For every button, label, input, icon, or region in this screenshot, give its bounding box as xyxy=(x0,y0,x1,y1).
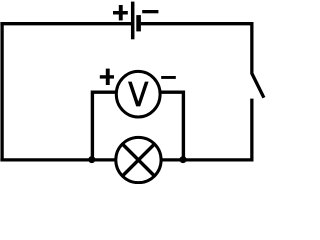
switch S1 (open blade) xyxy=(252,73,264,98)
wire voltmeter left branch (junction up and right to voltmeter) xyxy=(92,92,116,160)
label - (battery negative) xyxy=(142,10,158,13)
wire top-right segment (battery negative plate to right corner) xyxy=(141,22,254,25)
wire right lower segment (switch bottom contact to bottom corner) xyxy=(250,99,253,162)
battery B1 positive plate xyxy=(131,2,135,40)
label - (voltmeter negative terminal) xyxy=(161,76,176,79)
label + (voltmeter positive terminal) xyxy=(100,69,114,85)
voltmeter V1 letter V xyxy=(128,82,149,107)
wire bottom-left segment (bottom-left corner to lamp) xyxy=(0,158,116,161)
wire bottom-right segment (lamp to bottom-right corner) xyxy=(161,158,254,161)
wire voltmeter right branch (voltmeter right and down to junction) xyxy=(161,92,184,160)
wire top-left segment (left corner to battery positive plate) xyxy=(0,22,131,25)
wire right upper segment (top corner down to switch top contact) xyxy=(250,22,253,74)
wire left segment (left side of loop) xyxy=(0,22,3,162)
label + (battery positive) xyxy=(113,5,128,20)
lamp L1 cross xyxy=(122,144,154,176)
battery B1 negative plate xyxy=(136,15,141,31)
voltmeter V1 body xyxy=(116,71,160,117)
node B (junction dot right) xyxy=(180,156,187,163)
lamp L1 body xyxy=(116,137,161,182)
node A (junction dot left) xyxy=(88,156,95,163)
